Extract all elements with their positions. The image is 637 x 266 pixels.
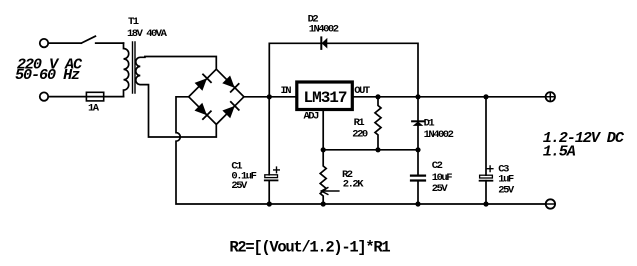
svg-text:ADJ: ADJ: [304, 111, 320, 123]
svg-text:D1: D1: [424, 118, 435, 130]
svg-text:50-60 Hz: 50-60 Hz: [15, 66, 80, 84]
svg-text:1N4002: 1N4002: [424, 129, 454, 141]
svg-text:T1: T1: [128, 16, 139, 28]
svg-text:220: 220: [352, 128, 368, 140]
svg-text:1.5A: 1.5A: [543, 142, 576, 160]
svg-text:OUT: OUT: [354, 85, 370, 97]
svg-text:25V: 25V: [498, 184, 515, 196]
svg-text:2.2K: 2.2K: [343, 179, 364, 191]
svg-text:IN: IN: [281, 85, 292, 97]
svg-text:R1: R1: [354, 117, 365, 129]
svg-text:25V: 25V: [231, 180, 248, 192]
svg-text:25V: 25V: [432, 183, 449, 195]
svg-text:18V 40VA: 18V 40VA: [127, 28, 168, 40]
svg-text:LM317: LM317: [304, 89, 347, 107]
svg-text:R2=[(Vout/1.2)-1]*R1: R2=[(Vout/1.2)-1]*R1: [229, 239, 390, 257]
svg-text:C2: C2: [432, 160, 443, 172]
svg-text:1N4002: 1N4002: [309, 23, 339, 35]
